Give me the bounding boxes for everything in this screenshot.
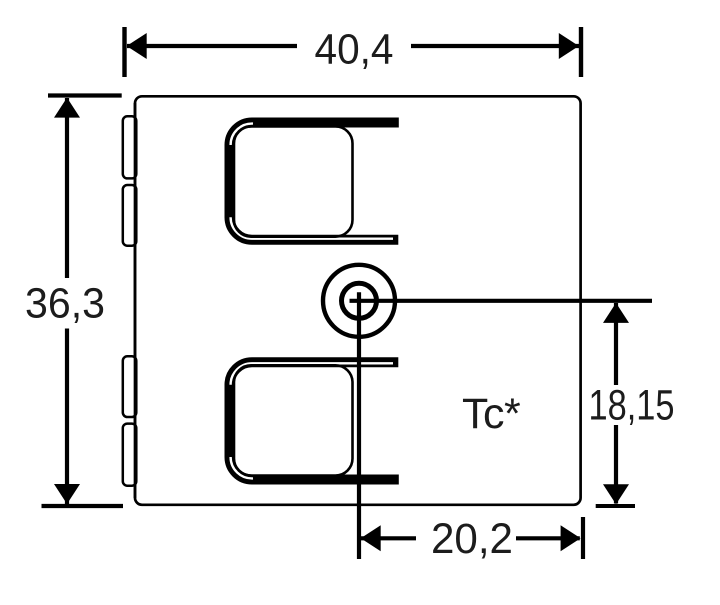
body left edge overdraw: [134, 103, 137, 498]
clip bottom: [230, 362, 399, 479]
tab 3: [123, 356, 137, 417]
dim 36,3 arrow bottom: [54, 484, 80, 504]
svg-text:18,15: 18,15: [589, 382, 675, 430]
tab 2: [123, 185, 137, 246]
dim 20,2 line left segment: [361, 536, 416, 540]
centerline vertical: [357, 292, 361, 559]
body outline: [135, 96, 581, 505]
dim 40,4 extension left: [122, 27, 126, 77]
clip top pad outline: [234, 127, 353, 237]
dim 18,15 arrow top: [603, 303, 629, 323]
tab 1: [123, 116, 137, 178]
clip bottom pad outline: [234, 365, 353, 475]
dim 40,4 line right segment: [411, 44, 579, 48]
dim 40,4 extension right: [579, 27, 583, 77]
dim 20,2 arrow left: [361, 525, 381, 551]
centerline horizontal: [350, 299, 653, 303]
clip bottom white corner arc: [231, 457, 253, 478]
clip top strip: [230, 123, 399, 240]
dim 20,2 line right segment: [516, 536, 580, 540]
dim 36,3 extension bottom: [42, 504, 124, 508]
clip top white corner arc lower and bottom gap: [231, 217, 393, 238]
dim 18,15 extension bottom: [596, 504, 635, 508]
dim 36,3 arrow top: [54, 98, 80, 118]
clip bottom strip: [230, 362, 399, 479]
clip top white corner arc upper: [231, 124, 253, 145]
dim 20,2 extension right: [581, 517, 585, 559]
clip bottom white corner arc and top gap: [231, 363, 393, 384]
dim 36,3 line lower segment: [65, 329, 69, 505]
dim 40,4 line left segment: [127, 44, 297, 48]
dim 20,2 arrow right: [561, 525, 581, 551]
dim 40,4 arrow right: [559, 33, 579, 59]
hole inner circle: [342, 283, 377, 318]
dim 40,4 arrow left: [127, 33, 147, 59]
dim 36,3 line upper segment: [65, 98, 69, 278]
dim 18,15 line upper segment: [614, 303, 618, 385]
dim 36,3 extension top: [48, 93, 122, 97]
tab 4: [123, 424, 137, 486]
svg-text:36,3: 36,3: [25, 280, 105, 328]
clip top: [230, 123, 399, 240]
hole outer circle: [323, 265, 395, 337]
svg-text:20,2: 20,2: [431, 515, 513, 563]
dim 18,15 line lower segment: [614, 425, 618, 504]
svg-text:Tc*: Tc*: [462, 390, 521, 438]
dim 18,15 arrow bottom: [603, 484, 629, 504]
svg-text:40,4: 40,4: [315, 26, 394, 74]
